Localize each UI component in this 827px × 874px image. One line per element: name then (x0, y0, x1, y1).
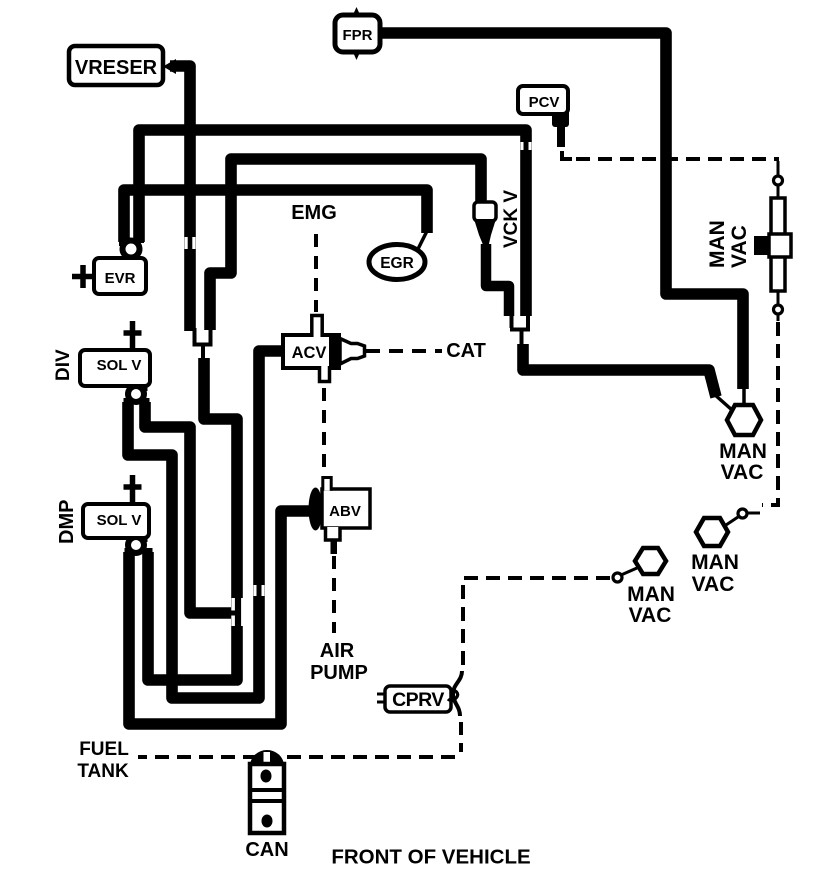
wire EVR right along top to PCV corner down to coupler2 (139, 130, 526, 316)
SOL V box (DIV) (80, 350, 150, 386)
wire VCK V bottom to coupler2 (486, 244, 509, 316)
connector nick on line x259 (254, 585, 257, 596)
svg-text:MAN: MAN (691, 551, 739, 574)
thin connector hex a top (742, 386, 746, 407)
ABV component (309, 478, 371, 555)
svg-text:EVR: EVR (105, 270, 136, 287)
wire DMP left to ABV (T10) (129, 511, 310, 724)
svg-text:EGR: EGR (380, 255, 414, 272)
dashed EMG line (138, 159, 779, 757)
squiggle connector below DIV SOL V (128, 384, 145, 410)
wire h4 branch to DIV right (T8) (145, 402, 231, 613)
svg-text:VAC: VAC (728, 225, 751, 268)
dashed CPRV net: hex c to corner to FUEL TANK (463, 578, 610, 672)
dashed PCV to manifold tap (576, 157, 779, 161)
svg-text:FPR: FPR (343, 27, 373, 44)
svg-text:CPRV: CPRV (392, 689, 444, 711)
coupler 1 (VRESER + VCK lines) fork (193, 328, 213, 361)
circle + link to hex c (613, 573, 622, 582)
connector nick on line x237 (232, 598, 235, 626)
circle below tap (777, 291, 780, 304)
cross at EVR (72, 265, 95, 288)
svg-text:CAT: CAT (446, 340, 486, 362)
squiggle connector below DMP SOL V (128, 536, 148, 558)
svg-text:AIR: AIR (320, 640, 355, 662)
svg-text:PCV: PCV (529, 94, 560, 111)
svg-text:SOL V: SOL V (97, 357, 142, 374)
SOL V box (DMP) (83, 504, 149, 538)
svg-text:TANK: TANK (77, 761, 129, 782)
wire EVR left to EGR (124, 190, 427, 242)
VCK V component (474, 202, 496, 246)
circle + link to hex b (748, 512, 760, 515)
svg-text:ABV: ABV (329, 503, 361, 520)
svg-text:MAN: MAN (627, 583, 675, 606)
wire coupler2 to MAN VAC hex left (523, 344, 716, 397)
EGR oval (369, 245, 425, 280)
cross above DMP SOL V (124, 475, 142, 504)
VRESER box (69, 46, 176, 85)
svg-text:MAN: MAN (706, 220, 729, 268)
svg-text:FRONT OF VEHICLE: FRONT OF VEHICLE (331, 846, 530, 869)
wire FPR to MAN VAC hex (T1) (380, 33, 743, 389)
hexagon MAN VAC a (727, 405, 761, 435)
svg-text:SOL V: SOL V (97, 512, 142, 529)
svg-text:DMP: DMP (56, 500, 78, 544)
svg-text:FUEL: FUEL (79, 739, 129, 760)
ACV component (283, 316, 365, 382)
dashed ABV down to AIR PUMP (332, 556, 336, 633)
svg-text:MAN: MAN (719, 440, 767, 463)
wire VRESER down to coupler (170, 66, 190, 331)
hexagon MAN VAC b (696, 518, 728, 546)
dashed ACV to CAT (366, 349, 442, 353)
svg-text:DIV: DIV (53, 349, 74, 381)
hexagon MAN VAC c (635, 548, 666, 574)
coupler 2 (EVR line + VCK line) fork (510, 315, 530, 346)
svg-text:VAC: VAC (721, 461, 764, 484)
wire VCK V top via H_b to coupler1 (210, 159, 481, 330)
connector nick on VRESER line (185, 142, 532, 626)
svg-text:EMG: EMG (291, 202, 337, 224)
svg-text:ACV: ACV (292, 344, 327, 362)
h4 tee nub (228, 611, 239, 616)
dashed ACV to ABV (322, 388, 326, 474)
thin connector into hex a from line (714, 394, 732, 410)
svg-text:CAN: CAN (245, 839, 288, 861)
svg-text:VRESER: VRESER (75, 57, 158, 79)
wire coupler1 down tee to DMP right (T7) (148, 358, 237, 680)
squiggle connector above EVR (123, 238, 140, 258)
manifold vacuum tap component (754, 198, 791, 291)
connector nick on line x526 (521, 142, 524, 150)
svg-text:PUMP: PUMP (310, 662, 368, 684)
dashed tap down and left to hex b (762, 322, 778, 505)
cross above DIV SOL V (124, 321, 142, 350)
PCV stub blob (552, 110, 572, 159)
svg-text:VAC: VAC (692, 573, 735, 596)
svg-text:VCK V: VCK V (501, 190, 522, 248)
CAN component (245, 750, 288, 861)
svg-text:VAC: VAC (629, 604, 672, 627)
EVR box (94, 258, 146, 294)
wire DIV left to ACV (T9) (128, 351, 284, 698)
PCV box (518, 86, 568, 114)
CPRV box (377, 671, 462, 716)
solid stubs + circle on tap line top (777, 161, 780, 175)
FPR box (335, 7, 380, 60)
